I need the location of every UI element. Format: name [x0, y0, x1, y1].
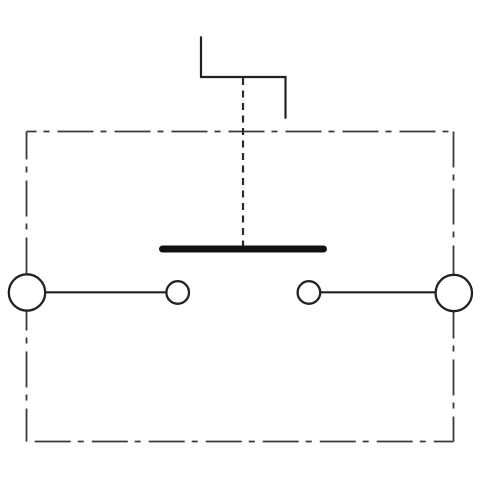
enclosure right edge [453, 132, 455, 442]
contact bridge (thick movable contact bar) [163, 246, 324, 253]
actuator (plunger lever, top) [201, 38, 286, 118]
switch body outline (dash-dot enclosure) [27, 132, 454, 442]
wire (contact arm, right: fixed contact to terminal 2) [309, 291, 454, 293]
wire (contact arm, left: terminal 1 to fixed contact) [27, 291, 178, 293]
terminal 1 (left, large circle) [9, 274, 45, 310]
enclosure left edge [26, 132, 28, 442]
enclosure bottom edge [27, 441, 454, 443]
terminal 2 (right, large circle) [436, 275, 472, 311]
fixed contact B (right small circle) [298, 281, 321, 304]
wire (dashed mechanical link from actuator to contact bridge) [242, 78, 244, 246]
enclosure top edge [27, 131, 454, 133]
fixed contact A (left small circle) [166, 281, 189, 304]
